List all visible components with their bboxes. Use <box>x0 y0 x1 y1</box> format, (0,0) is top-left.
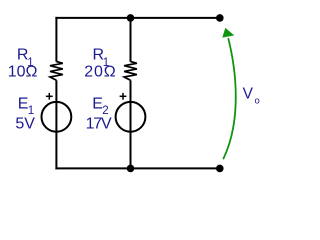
svg-text:V: V <box>243 85 254 102</box>
svg-text:10Ω: 10Ω <box>8 63 38 80</box>
terminal dot top right <box>216 14 224 22</box>
Vo arrow curve <box>224 39 236 159</box>
polarity plus E2 <box>120 93 127 100</box>
wire bottom <box>55 167 219 169</box>
wire top <box>55 17 219 19</box>
svg-text:20Ω: 20Ω <box>84 63 116 80</box>
voltage source E1 circle <box>42 102 72 132</box>
wire branch1 upper lead <box>55 17 57 62</box>
voltage source E2 circle <box>116 102 146 132</box>
Vo arrowhead <box>222 28 234 38</box>
svg-text:o: o <box>255 96 260 107</box>
wire branch2 lower lead <box>130 80 132 169</box>
terminal dot bottom right <box>216 165 224 173</box>
resistor R1 (10 ohm) zigzag <box>50 62 63 81</box>
svg-text:5V: 5V <box>15 116 35 133</box>
junction dot bottom <box>127 165 135 173</box>
wire branch1 lower lead <box>55 80 57 169</box>
polarity plus E1 <box>46 93 53 100</box>
resistor R1 (20 ohm) zigzag <box>124 62 137 81</box>
wire branch2 upper lead <box>130 17 132 62</box>
svg-text:17V: 17V <box>86 116 112 133</box>
junction dot top <box>127 14 135 22</box>
